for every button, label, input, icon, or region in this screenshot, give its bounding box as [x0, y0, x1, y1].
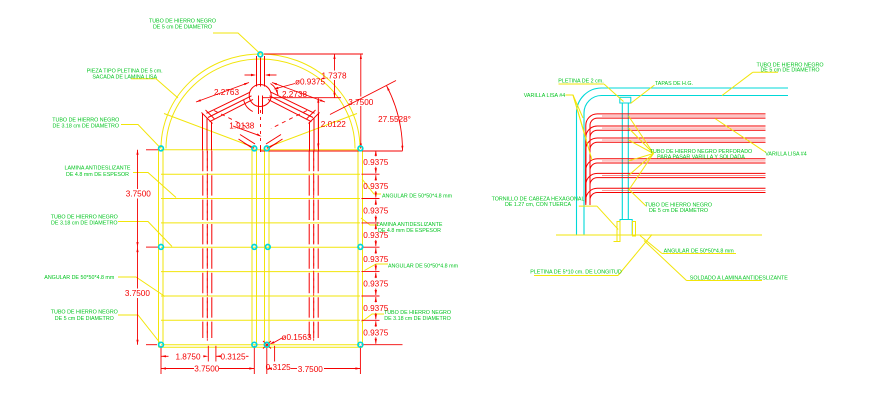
svg-text:TUBO DE HIERRO NEGRO: TUBO DE HIERRO NEGRO — [51, 214, 118, 220]
left panel tube centerline dashes — [206, 151, 208, 342]
fan left spoke tubes — [271, 92, 315, 113]
gate rungs horizontal rails — [161, 149, 360, 151]
svg-text:LAMINA ANTIDESLIZANTE: LAMINA ANTIDESLIZANTE — [65, 166, 131, 172]
handrail inner cyan line — [584, 96, 788, 236]
fan center dashed vertical — [260, 110, 262, 146]
dim 1.9138 — [233, 126, 260, 136]
svg-text:1.7378: 1.7378 — [321, 71, 346, 80]
base angle clip left — [617, 222, 620, 242]
hub angle arc upper-right — [271, 84, 279, 96]
svg-text:DE 5 cm DE DIAMETRO: DE 5 cm DE DIAMETRO — [55, 316, 114, 322]
fan yellow ray left — [164, 114, 254, 148]
svg-text:2.0122: 2.0122 — [321, 120, 346, 129]
leader varilla lisa right — [715, 119, 766, 153]
fan yellow ray right — [267, 114, 357, 148]
svg-text:0.3125: 0.3125 — [220, 352, 245, 361]
arch inner arc — [166, 59, 355, 149]
svg-text:DE 4.8 mm DE ESPESOR: DE 4.8 mm DE ESPESOR — [66, 172, 129, 178]
svg-text:DE 3.18 cm DE DIAMETRO: DE 3.18 cm DE DIAMETRO — [384, 316, 451, 322]
leader soldado — [687, 280, 763, 282]
svg-text:DE 3.18 cm DE DIAMETRO: DE 3.18 cm DE DIAMETRO — [53, 124, 120, 130]
bottom dims row1 left panel — [160, 346, 162, 374]
small arrows at apex tube — [245, 74, 255, 76]
svg-text:0.9375: 0.9375 — [363, 158, 388, 167]
dim 1.7378 vertical — [264, 53, 363, 55]
svg-text:PARA PASAR VARILLA Y SOLDADA: PARA PASAR VARILLA Y SOLDADA — [657, 155, 745, 161]
svg-text:SACADA DE LAMINA LISA: SACADA DE LAMINA LISA — [92, 75, 157, 81]
arch outer arc — [161, 54, 360, 149]
svg-text:VARILLA LISA #4: VARILLA LISA #4 — [765, 151, 807, 157]
svg-text:3.7500: 3.7500 — [348, 98, 373, 107]
leader tornillo — [579, 205, 597, 207]
leader angular right upper — [362, 179, 381, 194]
hatch on center marker — [263, 341, 271, 349]
leader tubo 3.18 right — [362, 314, 385, 322]
leader angular left — [118, 277, 165, 297]
red rails — [586, 114, 766, 195]
leader pletina 2cm — [559, 83, 605, 85]
leader lamina right — [361, 218, 378, 225]
angle dim 27.5528 ray — [330, 81, 396, 115]
svg-text:PIEZA TIPO PLETINA DE 5 cm.: PIEZA TIPO PLETINA DE 5 cm. — [87, 68, 163, 74]
svg-text:1.9138: 1.9138 — [229, 121, 254, 130]
gate bottom second rail — [159, 346, 363, 348]
svg-text:1.8750: 1.8750 — [175, 352, 200, 361]
leader angular base — [662, 253, 736, 255]
svg-text:3.7500: 3.7500 — [298, 365, 323, 374]
fan vertical tube at apex — [256, 56, 258, 87]
leader varilla lisa left — [566, 95, 584, 118]
svg-text:SOLDADO A LAMINA ANTIDESLIZANT: SOLDADO A LAMINA ANTIDESLIZANTE — [690, 276, 788, 282]
stack extension ticks — [362, 173, 380, 175]
svg-text:PLETINA DE 2 cm.: PLETINA DE 2 cm. — [558, 79, 603, 85]
leader fan tubo perforado — [629, 116, 654, 154]
left panel right edge verticals — [251, 150, 253, 345]
right 0.9375 dim stack — [375, 151, 377, 157]
dim 2.2763 aligned left — [196, 83, 249, 103]
extension line at springing right — [261, 150, 403, 152]
svg-text:27.5528°: 27.5528° — [378, 115, 411, 124]
bottom dims right panel — [267, 367, 272, 369]
svg-text:TAPAS DE H.G.: TAPAS DE H.G. — [655, 81, 693, 87]
ground line — [556, 234, 762, 236]
svg-text:DE 1.27 cm, CON TUERCA: DE 1.27 cm, CON TUERCA — [505, 202, 572, 208]
hub angle arc lower-left — [244, 100, 253, 112]
leader tubo 5cm top — [213, 33, 260, 54]
dim 2.2738 aligned right — [272, 83, 325, 103]
post bottom sleeve — [620, 220, 632, 236]
base angle clip right — [633, 222, 636, 237]
leader tubo 5cm bottom left — [118, 315, 161, 344]
svg-text:ANGULAR DE 50*50*4.8 mm: ANGULAR DE 50*50*4.8 mm — [664, 248, 735, 254]
leader tubo 3.18 lower left — [118, 222, 172, 247]
svg-text:0.9375: 0.9375 — [363, 182, 388, 191]
dim leader dia 0.9375 — [276, 84, 295, 89]
svg-text:3.7500: 3.7500 — [126, 190, 151, 199]
svg-text:2.2763: 2.2763 — [214, 88, 239, 97]
svg-text:PLETINA DE 5*10 cm. DE LONGITU: PLETINA DE 5*10 cm. DE LONGITUD — [530, 270, 622, 276]
left dim column 3.7500 x2 — [137, 150, 139, 189]
svg-text:DE 5 cm DE DIAMETRO: DE 5 cm DE DIAMETRO — [153, 25, 212, 31]
post cyan verticals — [621, 103, 623, 220]
dim 2.0122 vertical — [317, 98, 319, 149]
leader tapas — [631, 85, 655, 104]
svg-text:TUBO DE HIERRO NEGRO: TUBO DE HIERRO NEGRO — [51, 310, 118, 316]
leader tubo 5cm top right — [753, 71, 778, 73]
gate frame left vertical double line — [158, 149, 160, 348]
fan hub circle dia 0.9375 — [249, 85, 271, 107]
post top cap — [620, 97, 631, 103]
svg-text:0.9375: 0.9375 — [363, 255, 388, 264]
svg-text:ANGULAR DE 50*50*4.8 mm: ANGULAR DE 50*50*4.8 mm — [382, 194, 453, 200]
right panel tube centerline dashes — [313, 151, 315, 342]
bottom dims row2 left panel 3.7500 — [161, 368, 194, 370]
angle dim arc — [387, 86, 403, 151]
svg-text:DE 4.8 mm DE ESPESOR: DE 4.8 mm DE ESPESOR — [378, 228, 441, 234]
svg-text:3.7500: 3.7500 — [125, 289, 150, 298]
leader pieza tipo pletina — [131, 79, 178, 98]
left dim extension lines — [146, 149, 158, 151]
leader tubo 3.18 upper left — [121, 125, 161, 149]
svg-text:DE 5 cm DE DIAMETRO: DE 5 cm DE DIAMETRO — [649, 208, 708, 214]
svg-text:TUBO DE HIERRO NEGRO: TUBO DE HIERRO NEGRO — [149, 18, 216, 24]
svg-text:TUBO DE HIERRO NEGRO: TUBO DE HIERRO NEGRO — [52, 117, 119, 123]
svg-text:ANGULAR DE 50*50*4.8 mm: ANGULAR DE 50*50*4.8 mm — [388, 263, 459, 269]
right panel left edge verticals — [264, 150, 266, 345]
right panel center tube verticals — [308, 151, 310, 338]
svg-text:DE 5 cm DE DIAMETRO: DE 5 cm DE DIAMETRO — [760, 67, 819, 73]
svg-text:ANGULAR DE 50*50*4.8 mm: ANGULAR DE 50*50*4.8 mm — [44, 275, 115, 281]
svg-text:0.9375: 0.9375 — [363, 328, 388, 337]
gate frame right vertical double line — [357, 149, 359, 348]
leader pletina 5x10 — [534, 275, 618, 277]
dim 3.7500 vertical right upper — [360, 54, 362, 97]
svg-text:0.9375: 0.9375 — [363, 280, 388, 289]
fan right spoke tubes — [206, 92, 250, 113]
svg-text:VARILLA LISA #4: VARILLA LISA #4 — [524, 93, 566, 99]
handrail outer cyan line — [577, 88, 789, 235]
cyan node markers — [258, 52, 263, 57]
svg-text:ø0.1563: ø0.1563 — [281, 333, 311, 342]
svg-text:0.3125: 0.3125 — [266, 363, 291, 372]
leader lamina antideslizante left — [133, 173, 176, 198]
leader tubo 5cm bottom — [629, 189, 647, 206]
left panel center tube verticals — [202, 151, 204, 338]
svg-text:TUBO DE HIERRO NEGRO: TUBO DE HIERRO NEGRO — [384, 310, 451, 316]
extension line at hub level — [262, 97, 341, 99]
leader angular right lower — [365, 264, 389, 271]
svg-text:0.9375: 0.9375 — [363, 207, 388, 216]
svg-text:DE 3.18 cm DE DIAMETRO: DE 3.18 cm DE DIAMETRO — [51, 221, 118, 227]
svg-text:3.7500: 3.7500 — [194, 365, 219, 374]
fan hub vertical below — [258, 96, 260, 115]
